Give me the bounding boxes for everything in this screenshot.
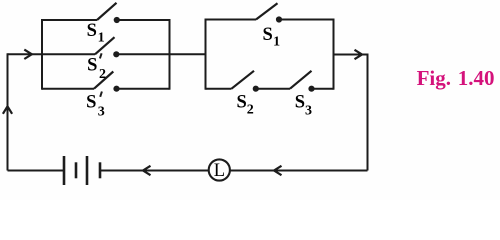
- wire left box top rail (contact side): [117, 19, 170, 21]
- svg-text:1.40: 1.40: [458, 66, 495, 90]
- node dot S3 contact (right box): [308, 86, 314, 92]
- wire right box bottom rail segment 1: [206, 88, 232, 90]
- label S1 (left box): [87, 21, 105, 46]
- switch S3' lever (left box): [94, 72, 113, 89]
- wire right box top rail (contact side): [279, 19, 334, 21]
- wire left outer vertical: [7, 53, 9, 170]
- battery plate short 1: [75, 162, 78, 178]
- svg-text:2: 2: [247, 103, 254, 118]
- lamp L circle: [209, 159, 230, 180]
- node dot S1 contact (left box): [114, 17, 120, 23]
- wire right box bottom rail segment 2: [256, 88, 290, 90]
- switch S1 lever (right box): [256, 3, 278, 19]
- wire entry horizontal left: [8, 53, 43, 55]
- battery plate long 2: [86, 156, 89, 185]
- wire battery to lamp: [100, 170, 209, 172]
- switch S3 lever (right box): [290, 71, 312, 89]
- arrow up on left vertical: [3, 106, 12, 114]
- switch S1 lever (left box): [97, 3, 117, 20]
- svg-text:3: 3: [98, 104, 105, 119]
- battery cell plates: [64, 156, 100, 185]
- wire left box middle rail (pivot side): [42, 53, 95, 55]
- label S3 (right box): [295, 93, 312, 119]
- svg-text:S: S: [295, 93, 305, 113]
- node dot S1 contact (right box): [276, 16, 282, 22]
- wire middle rail to right box: [116, 53, 205, 55]
- node: left box left vertical: [41, 19, 43, 90]
- wire right outer vertical: [367, 54, 369, 171]
- svg-text:L: L: [214, 161, 225, 181]
- wire right box top rail (pivot side): [206, 19, 257, 21]
- arrow left (battery-lamp segment): [143, 166, 151, 175]
- node dot S2 contact (right box): [253, 86, 259, 92]
- node: left box right vertical: [169, 19, 171, 90]
- arrow right on exit wire: [355, 50, 363, 59]
- label S1 (right box): [263, 25, 281, 49]
- node dot S3' contact (left box): [113, 86, 119, 92]
- svg-text:S: S: [263, 25, 273, 45]
- wire lamp to right corner: [230, 170, 368, 172]
- wire left box bottom rail (pivot side): [42, 88, 94, 90]
- svg-text:2: 2: [99, 67, 106, 82]
- wire exit horizontal right: [334, 54, 368, 56]
- svg-text:Fig.: Fig.: [417, 66, 451, 90]
- label S2 (right box): [237, 92, 254, 117]
- battery plate long 1: [63, 156, 66, 185]
- svg-text:S: S: [86, 92, 96, 112]
- svg-text:1: 1: [273, 34, 280, 49]
- node dot S2' contact (left box): [113, 51, 119, 57]
- caption Fig. 1.40: [417, 66, 495, 90]
- switch S2' lever (left box): [95, 37, 115, 54]
- svg-text:S: S: [237, 92, 247, 112]
- arrow right on entry wire: [24, 50, 32, 59]
- svg-text:1: 1: [98, 30, 105, 45]
- svg-text:S: S: [87, 21, 97, 41]
- label S3' (left box): [86, 92, 105, 120]
- wire left box bottom rail (contact side): [117, 88, 170, 90]
- svg-text:S: S: [87, 56, 97, 76]
- wire right box bottom rail segment 3: [312, 88, 334, 90]
- battery plate short 2: [99, 162, 102, 178]
- wire bottom left (corner to battery): [8, 170, 64, 172]
- label S2' (left box): [87, 53, 106, 82]
- node: right box right vertical: [333, 19, 335, 90]
- wire left box top rail (pivot side): [42, 19, 97, 21]
- svg-text:3: 3: [305, 103, 312, 118]
- switch S2 lever (right box): [232, 71, 255, 89]
- arrow left (lamp-right segment): [274, 166, 282, 175]
- node: right box left vertical: [205, 19, 207, 90]
